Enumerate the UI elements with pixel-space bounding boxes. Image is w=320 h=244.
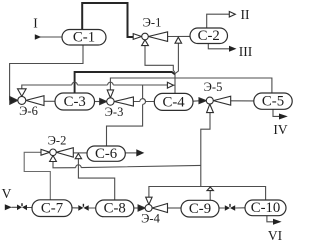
svg-text:Э-6: Э-6 xyxy=(19,104,38,118)
svg-text:V: V xyxy=(2,186,12,201)
wire C-6 feed branch from E-6 line xyxy=(107,85,143,146)
ejector E-1 xyxy=(133,32,167,46)
wire E-1 suction down and to merge xyxy=(145,46,175,73)
wire hop of E-6 line over E-3 suction xyxy=(108,82,114,85)
vessel C-9 xyxy=(181,200,219,217)
svg-text:VI: VI xyxy=(268,228,283,243)
wire C-4 to E-5 nozzle xyxy=(193,100,199,102)
stream V arrow xyxy=(5,204,12,210)
svg-text:С-6: С-6 xyxy=(95,146,117,162)
vessel C-10 xyxy=(245,200,286,216)
wire E-1 diffuser to C-2 xyxy=(168,35,190,37)
svg-text:С-4: С-4 xyxy=(162,95,185,111)
wire stream I inlet to C-1 xyxy=(40,36,62,38)
svg-text:С-7: С-7 xyxy=(41,200,63,216)
wire hop of C-6 branch over E-3 to C-4 pipe xyxy=(143,99,146,105)
C-6 outlet arrow xyxy=(136,149,144,156)
junction arrow under E-1 to C-2 line xyxy=(175,37,182,43)
wire C-8 feed branch from E-2 discharge line down to C-8 xyxy=(78,159,114,200)
vessel C-3 xyxy=(55,93,95,110)
wire thick C-3 overhead riser and run to merge xyxy=(75,72,175,93)
svg-text:Э-2: Э-2 xyxy=(48,134,67,148)
ejector E-5 xyxy=(199,96,231,112)
stream III arrow xyxy=(229,46,237,52)
stream VI arrow xyxy=(273,219,282,225)
wire E-3 suction from C-5 top xyxy=(110,78,272,93)
stream II open arrow xyxy=(229,12,235,18)
wire stream II from C-2 top xyxy=(207,14,230,28)
wire E-2 diffuser to C-6 xyxy=(73,152,87,154)
svg-text:С-8: С-8 xyxy=(104,201,126,217)
svg-text:II: II xyxy=(241,7,250,22)
ejector E-6 xyxy=(10,89,44,106)
junction arrow on C-9 riser xyxy=(207,187,213,191)
vessel C-8 xyxy=(96,200,134,217)
ejector E-3 xyxy=(100,90,134,106)
svg-text:I: I xyxy=(33,16,38,31)
wire C-8 to E-4 nozzle xyxy=(134,207,138,209)
vessel C-7 xyxy=(32,200,72,217)
svg-text:С-5: С-5 xyxy=(262,94,284,110)
svg-text:Э-3: Э-3 xyxy=(105,105,124,119)
wire E-5 diffuser to C-5 xyxy=(231,100,254,102)
svg-text:IV: IV xyxy=(273,122,287,137)
vessel C-6 xyxy=(87,146,125,161)
svg-text:С-9: С-9 xyxy=(189,201,211,217)
wire hop of suction line over C-8 branch xyxy=(76,165,82,168)
valve at stream V inlet xyxy=(17,203,27,210)
wire stream VI from C-10 bottom xyxy=(267,216,274,222)
stream IV arrow xyxy=(279,114,288,120)
valve between C-7 and C-8 xyxy=(78,204,88,211)
wire E-2 suction long line to E-5 suction drop xyxy=(53,162,201,168)
svg-text:Э-1: Э-1 xyxy=(143,16,162,30)
svg-text:Э-4: Э-4 xyxy=(141,212,160,226)
vessel C-4 xyxy=(154,93,193,110)
vessel C-5 xyxy=(254,93,292,109)
wire C-7 to valve to C-8 xyxy=(72,207,96,209)
wire E-6 suction line to C-4 riser xyxy=(22,85,168,89)
wire C-6 outlet arrow line xyxy=(125,152,137,154)
wire C-9 to valve to C-10 xyxy=(219,207,245,209)
wire riser from arrow triangle under E-1 line down to C-4 top xyxy=(175,43,178,93)
valve between C-9 and C-10 xyxy=(225,204,235,211)
wire stream III from C-2 bottom xyxy=(208,44,229,49)
wire thick C-1 overhead to ejector E-1 xyxy=(82,3,133,37)
svg-text:С-1: С-1 xyxy=(73,30,95,46)
stream I arrow xyxy=(35,34,41,39)
wire E-4 diffuser to C-9 xyxy=(168,207,182,209)
ejector E-4 xyxy=(138,197,167,212)
vessel C-2 xyxy=(190,28,228,44)
wire E-2 nozzle feed from C-7 top xyxy=(24,152,50,200)
wire E-3 diffuser to C-4 with hop over C-6 branch xyxy=(133,101,154,103)
svg-text:Э-5: Э-5 xyxy=(204,80,223,94)
svg-text:С-10: С-10 xyxy=(251,200,281,216)
svg-text:С-3: С-3 xyxy=(64,94,86,110)
junction arrow at end of E-6 line into riser xyxy=(167,82,173,88)
wire C-9 top riser xyxy=(209,191,211,201)
wire E-6 diffuser to C-3 xyxy=(44,100,55,102)
vessel C-1 xyxy=(62,30,106,46)
wire E-5 suction down to E-4 line xyxy=(201,113,210,187)
wire stream IV from C-5 bottom xyxy=(273,109,280,116)
ejector E-2 xyxy=(41,148,73,162)
wire stream V to valve to C-7 xyxy=(12,206,33,208)
wire C-1 bottom to E-6 nozzle xyxy=(10,45,83,100)
svg-text:С-2: С-2 xyxy=(198,28,220,44)
wire C-3 to E-3 nozzle xyxy=(95,101,100,103)
svg-text:III: III xyxy=(239,44,253,59)
wire E-4 suction line to C-10 top xyxy=(149,187,266,201)
wire hop over C-6 branch xyxy=(140,99,146,102)
wire hop of E-6 line over C-3 riser xyxy=(72,82,78,85)
junction arrow under E-2 discharge line xyxy=(75,154,81,159)
